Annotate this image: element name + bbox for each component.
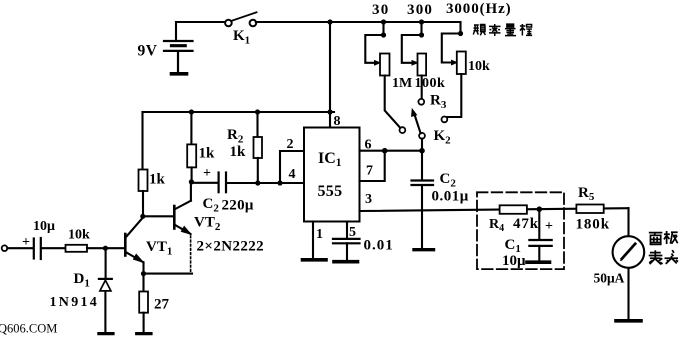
svg-text:0.01μ: 0.01μ	[432, 189, 469, 205]
wire VT1 collector to VT2 base	[143, 215, 174, 217]
label mianban biaotou CJK	[649, 231, 678, 264]
node pin6/K2/C3	[419, 148, 425, 154]
node VCC rail junction	[327, 109, 332, 114]
potentiometer RP2 100k	[402, 22, 426, 105]
svg-text:1M: 1M	[392, 76, 412, 91]
node VT1 emitter	[141, 271, 146, 276]
label pinlv liangcheng (frequency range) CJK	[473, 24, 532, 36]
wire pin3 output	[360, 208, 629, 211]
diode D1 1N914	[99, 248, 113, 333]
battery 9V plates	[164, 41, 193, 74]
svg-text:7: 7	[366, 164, 373, 179]
svg-text:9V: 9V	[138, 43, 158, 60]
resistor 1k (VT1 collector load)	[139, 112, 148, 216]
wire top rail left (battery to K1)	[176, 21, 226, 23]
svg-text:4: 4	[289, 167, 296, 182]
capacitor C1 10u	[527, 209, 552, 262]
wire to meter	[627, 208, 629, 236]
node VT1 collector	[140, 214, 145, 219]
svg-text:10k: 10k	[68, 228, 90, 243]
capacitor 0.01 at pin5	[333, 222, 360, 262]
svg-text:100k: 100k	[415, 76, 446, 91]
svg-text:47k: 47k	[513, 216, 539, 232]
svg-text:180k: 180k	[576, 217, 610, 233]
resistor 10k input	[66, 245, 88, 252]
svg-text:1k: 1k	[199, 146, 216, 162]
meter M 50uA	[613, 236, 645, 268]
svg-text:8: 8	[334, 114, 341, 129]
wire pin1 ground	[312, 222, 314, 259]
wire pin8 drop	[329, 22, 331, 128]
svg-text:27: 27	[154, 297, 170, 313]
svg-text:1k: 1k	[149, 172, 166, 188]
node top rail / pin8 drop	[327, 19, 332, 24]
node pot1 top	[381, 19, 386, 24]
wire top rail right (K1 to pots)	[256, 21, 461, 23]
svg-text:2×2N2222: 2×2N2222	[197, 239, 265, 255]
capacitor 10u input	[34, 238, 66, 259]
switch K2	[412, 109, 425, 151]
op IC1 555 box	[304, 128, 360, 222]
svg-text:5: 5	[349, 225, 356, 240]
wire pin6	[360, 150, 423, 152]
svg-text:+: +	[22, 235, 30, 250]
svg-text:50μA: 50μA	[594, 271, 625, 286]
svg-text:1k: 1k	[230, 144, 247, 160]
transistor VT2	[174, 182, 191, 273]
ground pin1	[303, 258, 327, 262]
svg-text:10μ: 10μ	[33, 219, 55, 234]
node R4/C1	[537, 206, 543, 212]
transistor VT1	[125, 218, 143, 274]
svg-text:+: +	[545, 219, 553, 234]
wire pin2 bracket	[280, 151, 304, 183]
capacitor C2 220u	[191, 173, 304, 193]
potentiometer RP1 1M	[365, 22, 405, 133]
svg-text:300: 300	[407, 2, 433, 18]
resistor 1k (VT2 collector load)	[187, 112, 196, 182]
resistor R4 47k	[500, 205, 527, 214]
switch K1	[225, 12, 256, 26]
capacitor C3 0.01u timing	[412, 151, 434, 250]
svg-text:1N914: 1N914	[50, 295, 100, 310]
node R2 bottom	[255, 180, 260, 185]
node pot2 top	[419, 19, 424, 24]
node pin6/pin7	[382, 148, 388, 154]
svg-text:10k: 10k	[468, 59, 490, 74]
node rail R2	[255, 109, 260, 114]
svg-text:3: 3	[365, 192, 372, 207]
svg-text:220μ: 220μ	[222, 198, 254, 214]
input terminal	[2, 245, 8, 251]
battery 9V lead	[175, 22, 177, 40]
wire emitter rail	[144, 273, 193, 275]
resistor R2 1k	[254, 112, 263, 183]
svg-text:10μ: 10μ	[502, 253, 526, 269]
VCC rail wire	[143, 111, 335, 113]
svg-text:Q606.COM: Q606.COM	[0, 322, 57, 336]
wire meter ground	[627, 268, 629, 319]
svg-text:1: 1	[316, 227, 323, 242]
resistor R5 180k	[576, 205, 603, 214]
svg-text:+: +	[203, 166, 211, 181]
svg-text:555: 555	[318, 183, 343, 200]
svg-text:3000(Hz): 3000(Hz)	[446, 1, 512, 17]
resistor 27	[137, 274, 151, 334]
node rail 1k right	[189, 109, 194, 114]
svg-text:6: 6	[365, 138, 372, 153]
wire 10k to base	[87, 247, 125, 249]
svg-text:0.01: 0.01	[364, 238, 394, 254]
wire input	[7, 247, 33, 249]
ground meter	[616, 319, 641, 323]
node D1 top	[103, 246, 108, 251]
node VT2 collector / C2 left	[189, 179, 194, 184]
node pin2 bracket	[277, 180, 282, 185]
potentiometer RP3 10k	[442, 22, 466, 122]
dashed box R4/C1	[477, 192, 564, 269]
svg-text:30: 30	[372, 2, 389, 18]
svg-text:2: 2	[287, 137, 294, 152]
wire pin7 bracket	[360, 151, 385, 181]
